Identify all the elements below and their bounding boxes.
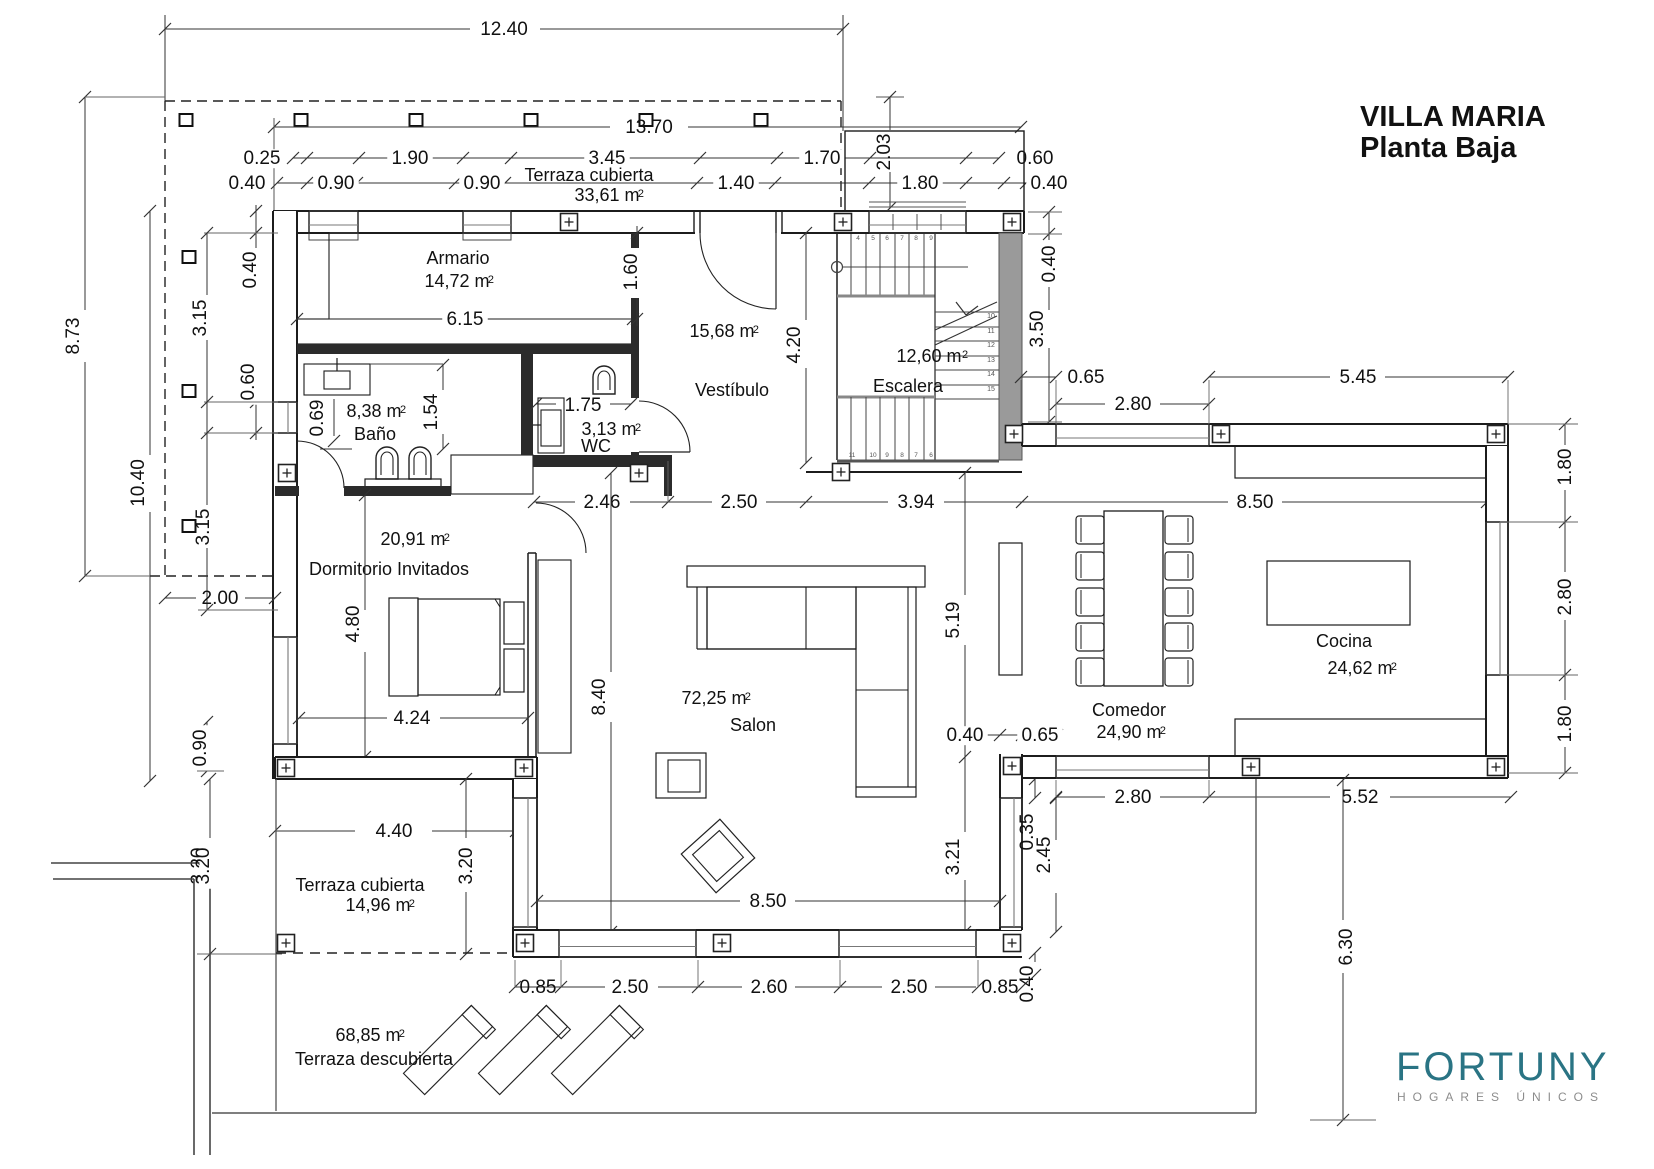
svg-text:4.20: 4.20 — [784, 327, 805, 364]
svg-text:0.40: 0.40 — [1039, 246, 1060, 283]
svg-text:24,90 m: 24,90 m — [1096, 722, 1161, 742]
svg-text:0.40: 0.40 — [240, 252, 261, 289]
svg-text:12,60 m: 12,60 m — [896, 346, 961, 366]
svg-text:2: 2 — [638, 188, 644, 200]
svg-text:0.69: 0.69 — [307, 400, 328, 437]
svg-text:68,85 m: 68,85 m — [335, 1025, 400, 1045]
svg-text:Armario: Armario — [426, 248, 489, 268]
svg-text:7: 7 — [900, 235, 904, 242]
svg-text:6.15: 6.15 — [447, 309, 484, 330]
svg-text:Planta Baja: Planta Baja — [1360, 132, 1517, 164]
svg-text:2: 2 — [753, 324, 759, 336]
svg-text:4.24: 4.24 — [394, 708, 431, 729]
svg-text:2.50: 2.50 — [612, 977, 649, 998]
svg-text:4.40: 4.40 — [376, 821, 413, 842]
svg-text:20,91 m: 20,91 m — [380, 529, 445, 549]
svg-text:5: 5 — [871, 235, 875, 242]
svg-text:8.50: 8.50 — [1237, 492, 1274, 513]
svg-text:15,68 m: 15,68 m — [689, 321, 754, 341]
svg-text:3.15: 3.15 — [190, 300, 211, 337]
svg-text:2: 2 — [1391, 661, 1397, 673]
svg-text:2: 2 — [400, 404, 406, 416]
svg-text:9: 9 — [885, 452, 889, 459]
svg-text:3.15: 3.15 — [193, 509, 214, 546]
svg-text:Dormitorio Invitados: Dormitorio Invitados — [309, 559, 469, 579]
svg-text:1.54: 1.54 — [421, 393, 442, 430]
svg-text:2.50: 2.50 — [721, 492, 758, 513]
svg-text:14,96 m: 14,96 m — [345, 895, 410, 915]
svg-text:13: 13 — [987, 357, 995, 364]
svg-text:11: 11 — [987, 328, 994, 335]
svg-text:3.50: 3.50 — [1027, 311, 1048, 348]
svg-text:HOGARES ÚNICOS: HOGARES ÚNICOS — [1397, 1089, 1605, 1104]
svg-text:2.00: 2.00 — [202, 588, 239, 609]
svg-text:2: 2 — [745, 691, 751, 703]
svg-text:0.25: 0.25 — [244, 148, 281, 169]
svg-text:Escalera: Escalera — [873, 376, 944, 396]
svg-text:2.50: 2.50 — [891, 977, 928, 998]
svg-text:6.30: 6.30 — [1336, 929, 1357, 966]
svg-text:0.40: 0.40 — [1031, 173, 1068, 194]
svg-text:0.40: 0.40 — [947, 725, 984, 746]
svg-text:1.80: 1.80 — [1555, 449, 1576, 486]
svg-text:0.90: 0.90 — [190, 730, 211, 767]
svg-text:12.40: 12.40 — [480, 19, 528, 40]
svg-text:8.73: 8.73 — [63, 318, 84, 355]
svg-text:3.20: 3.20 — [193, 848, 214, 885]
svg-text:2.60: 2.60 — [751, 977, 788, 998]
svg-text:24,62 m: 24,62 m — [1327, 658, 1392, 678]
svg-text:1.80: 1.80 — [902, 173, 939, 194]
svg-text:13.70: 13.70 — [625, 117, 673, 138]
svg-text:3.20: 3.20 — [456, 848, 477, 885]
svg-text:0.65: 0.65 — [1022, 725, 1059, 746]
svg-text:4: 4 — [856, 235, 860, 242]
svg-text:0.90: 0.90 — [464, 173, 501, 194]
svg-text:15: 15 — [987, 386, 995, 393]
svg-text:3.21: 3.21 — [943, 839, 964, 876]
svg-text:2: 2 — [635, 422, 641, 434]
svg-text:0.90: 0.90 — [318, 173, 355, 194]
svg-text:9: 9 — [929, 235, 933, 242]
svg-text:6: 6 — [885, 235, 889, 242]
svg-text:Comedor: Comedor — [1092, 700, 1166, 720]
svg-text:2.03: 2.03 — [874, 134, 895, 171]
svg-text:8,38 m: 8,38 m — [346, 401, 401, 421]
svg-text:1.80: 1.80 — [1555, 706, 1576, 743]
svg-text:8: 8 — [900, 452, 904, 459]
svg-text:2.46: 2.46 — [584, 492, 621, 513]
svg-text:14: 14 — [987, 371, 995, 378]
svg-text:8.50: 8.50 — [750, 891, 787, 912]
svg-text:Terraza cubierta: Terraza cubierta — [524, 165, 654, 185]
svg-text:2: 2 — [399, 1028, 405, 1040]
svg-text:1.75: 1.75 — [565, 395, 602, 416]
svg-text:10.40: 10.40 — [128, 459, 149, 507]
svg-text:6: 6 — [929, 452, 933, 459]
svg-text:Terraza descubierta: Terraza descubierta — [295, 1049, 454, 1069]
svg-text:WC: WC — [581, 436, 611, 456]
svg-text:1.70: 1.70 — [804, 148, 841, 169]
svg-text:0.85: 0.85 — [520, 977, 557, 998]
svg-text:2: 2 — [1160, 725, 1166, 737]
svg-text:5.45: 5.45 — [1340, 367, 1377, 388]
svg-text:0.60: 0.60 — [238, 364, 259, 401]
svg-text:0.60: 0.60 — [1017, 148, 1054, 169]
svg-text:1.90: 1.90 — [392, 148, 429, 169]
svg-text:8.40: 8.40 — [589, 679, 610, 716]
svg-text:3.94: 3.94 — [898, 492, 935, 513]
svg-text:1.60: 1.60 — [621, 254, 642, 291]
svg-text:2: 2 — [488, 274, 494, 286]
svg-text:2: 2 — [962, 349, 968, 361]
svg-text:2.45: 2.45 — [1034, 837, 1055, 874]
svg-text:7: 7 — [914, 452, 918, 459]
svg-text:FORTUNY: FORTUNY — [1396, 1045, 1610, 1089]
svg-text:0.40: 0.40 — [1017, 966, 1038, 1003]
svg-text:Terraza cubierta: Terraza cubierta — [295, 875, 425, 895]
svg-text:Baño: Baño — [354, 424, 396, 444]
svg-text:33,61 m: 33,61 m — [574, 185, 639, 205]
svg-text:2: 2 — [444, 532, 450, 544]
svg-text:10: 10 — [987, 313, 995, 320]
svg-text:VILLA MARIA: VILLA MARIA — [1360, 101, 1546, 133]
svg-text:14,72 m: 14,72 m — [424, 271, 489, 291]
svg-text:72,25 m: 72,25 m — [681, 688, 746, 708]
svg-text:5.19: 5.19 — [943, 602, 964, 639]
svg-text:Vestíbulo: Vestíbulo — [695, 380, 769, 400]
svg-text:0.40: 0.40 — [229, 173, 266, 194]
svg-text:12: 12 — [987, 342, 995, 349]
svg-text:Cocina: Cocina — [1316, 631, 1373, 651]
svg-text:2.80: 2.80 — [1115, 394, 1152, 415]
svg-text:5.52: 5.52 — [1342, 787, 1379, 808]
svg-text:1.40: 1.40 — [718, 173, 755, 194]
svg-text:2.80: 2.80 — [1555, 579, 1576, 616]
svg-text:0.65: 0.65 — [1068, 367, 1105, 388]
svg-text:0.85: 0.85 — [982, 977, 1019, 998]
svg-text:10: 10 — [869, 452, 877, 459]
svg-text:Salon: Salon — [730, 715, 776, 735]
svg-text:2: 2 — [409, 898, 415, 910]
svg-text:4.80: 4.80 — [343, 606, 364, 643]
svg-text:8: 8 — [914, 235, 918, 242]
svg-text:2.80: 2.80 — [1115, 787, 1152, 808]
svg-text:11: 11 — [849, 452, 856, 459]
